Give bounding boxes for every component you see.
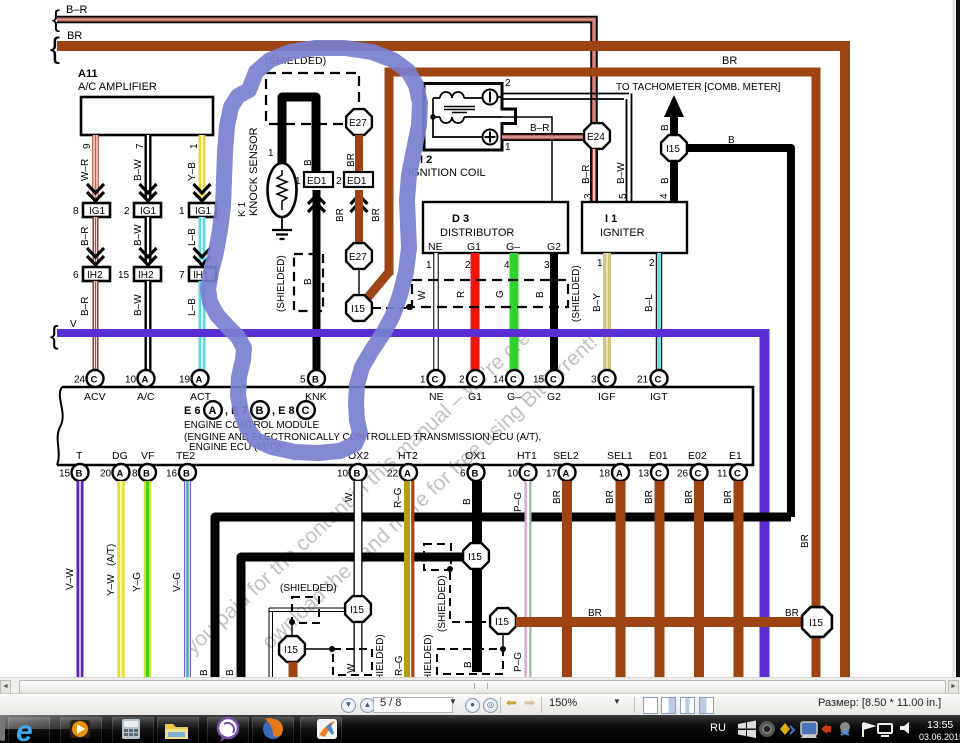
svg-text:5: 5 bbox=[300, 375, 306, 386]
svg-text:1: 1 bbox=[189, 143, 200, 149]
svg-text:1: 1 bbox=[179, 206, 185, 217]
svg-text:ED1: ED1 bbox=[347, 176, 367, 187]
svg-text:1: 1 bbox=[420, 375, 426, 386]
scrollbar bbox=[0, 677, 960, 694]
watermark line 2 bbox=[258, 330, 602, 653]
wire BR E27 to ED1 bbox=[355, 135, 363, 172]
wire B distributor G2 bbox=[535, 253, 554, 370]
svg-text:BR: BR bbox=[371, 208, 382, 222]
svg-text:E 6: E 6 bbox=[184, 405, 201, 417]
svg-text:B: B bbox=[354, 469, 361, 480]
node ACV pin 24 bbox=[74, 370, 106, 403]
node KNK pin 5 bbox=[300, 370, 327, 403]
svg-text:IG1: IG1 bbox=[140, 206, 157, 217]
wire B-W IG1 to IH2 bbox=[133, 217, 157, 265]
svg-text:BR: BR bbox=[785, 608, 799, 619]
svg-text:B: B bbox=[660, 124, 671, 131]
svg-text:KNOCK SENSOR: KNOCK SENSOR bbox=[248, 127, 260, 216]
svg-text:I15: I15 bbox=[809, 618, 823, 629]
ECM box bbox=[57, 387, 753, 465]
svg-text:ED1: ED1 bbox=[307, 176, 327, 187]
connector I15 tach bbox=[661, 135, 687, 161]
wire R distributor G1 bbox=[456, 253, 475, 370]
distributor D3 bbox=[423, 202, 568, 253]
svg-text:E24: E24 bbox=[587, 132, 605, 143]
svg-text:E27: E27 bbox=[349, 252, 367, 263]
svg-text:16: 16 bbox=[166, 469, 178, 480]
wire Y-B from A11 pin 1 bbox=[187, 135, 211, 201]
svg-text:2: 2 bbox=[124, 206, 130, 217]
svg-text:C: C bbox=[302, 405, 310, 417]
node G1 pin 2 bbox=[459, 370, 484, 403]
A/C amplifier A11 bbox=[78, 68, 213, 135]
shield dashed drop OX1 bbox=[437, 572, 487, 632]
svg-text:I 2: I 2 bbox=[420, 154, 432, 166]
svg-text:HT1: HT1 bbox=[517, 450, 537, 462]
svg-text:B: B bbox=[256, 405, 264, 417]
node OX2 pin 10 bbox=[337, 450, 369, 481]
node OX1 pin 6 bbox=[460, 450, 486, 481]
svg-text:BR: BR bbox=[67, 30, 82, 42]
svg-text:C: C bbox=[603, 375, 610, 386]
svg-text:DISTRIBUTOR: DISTRIBUTOR bbox=[440, 227, 514, 239]
svg-text:10: 10 bbox=[125, 375, 137, 386]
svg-text:DG: DG bbox=[112, 450, 128, 462]
node E1 pin 11 bbox=[717, 450, 747, 481]
svg-text:(SHIELDED): (SHIELDED) bbox=[375, 634, 386, 677]
svg-text:B–R: B–R bbox=[80, 227, 91, 246]
wire BR top horizontal bbox=[50, 30, 845, 677]
svg-text:5: 5 bbox=[618, 193, 629, 199]
igniter I1 bbox=[582, 202, 687, 253]
node SEL1 pin 18 bbox=[599, 450, 633, 481]
shield dashed box OX2 upper bbox=[289, 597, 319, 625]
node A/C pin 10 bbox=[125, 370, 155, 403]
wire W-R from A11 pin 9 bbox=[80, 135, 104, 201]
svg-text:R–G: R–G bbox=[393, 487, 404, 508]
shield dashed box OX1 upper bbox=[424, 544, 453, 572]
svg-text:20: 20 bbox=[100, 469, 112, 480]
svg-text:B–R: B–R bbox=[581, 165, 592, 184]
wire B-R IH2 to ECM 24 bbox=[80, 281, 96, 370]
svg-text:C: C bbox=[655, 375, 662, 386]
connector I15 on B wire OX1 bbox=[463, 543, 489, 569]
svg-text:W–R: W–R bbox=[80, 159, 91, 181]
svg-text:13: 13 bbox=[638, 469, 650, 480]
wire B-W from A11 pin 7 bbox=[133, 135, 157, 201]
svg-text:R: R bbox=[456, 291, 467, 298]
svg-text:TO TACHOMETER [COMB. METER]: TO TACHOMETER [COMB. METER] bbox=[616, 82, 781, 93]
wire B knock sensor loop bbox=[268, 97, 357, 172]
svg-text:BR: BR bbox=[800, 534, 811, 548]
svg-text:B: B bbox=[225, 669, 236, 676]
svg-text:B: B bbox=[76, 469, 83, 480]
svg-text:IGNITER: IGNITER bbox=[600, 227, 645, 239]
node IGF pin 3 bbox=[591, 370, 616, 403]
svg-text:7: 7 bbox=[179, 270, 185, 281]
svg-text:G: G bbox=[495, 290, 506, 298]
svg-text:22: 22 bbox=[387, 469, 399, 480]
svg-text:W: W bbox=[346, 663, 357, 673]
svg-text:B: B bbox=[472, 469, 479, 480]
svg-text:E02: E02 bbox=[688, 450, 707, 462]
wire B-R coil pin1 to E24 bbox=[502, 123, 584, 153]
svg-text:1: 1 bbox=[268, 148, 274, 159]
svg-text:A: A bbox=[563, 469, 570, 480]
svg-text:B–R: B–R bbox=[80, 297, 91, 316]
svg-text:L–B: L–B bbox=[187, 298, 198, 316]
node G2 pin 15 bbox=[533, 370, 563, 403]
svg-text:IH2: IH2 bbox=[138, 270, 154, 281]
svg-text:ACT: ACT bbox=[190, 391, 212, 403]
svg-text:10: 10 bbox=[337, 469, 349, 480]
label B-W igniter pin5 bbox=[616, 162, 629, 199]
svg-text:(SHIELDED): (SHIELDED) bbox=[571, 265, 582, 322]
wire L-B IH1 to ECM 19 bbox=[187, 281, 202, 370]
node HT1 pin 10 bbox=[507, 450, 537, 481]
svg-text:B–Y: B–Y bbox=[592, 293, 603, 312]
svg-text:e: e bbox=[16, 715, 33, 743]
connector ED1 pin 1 bbox=[295, 172, 333, 212]
svg-text:G1: G1 bbox=[468, 391, 482, 403]
wire G distributor G- bbox=[495, 253, 514, 370]
svg-text:E01: E01 bbox=[649, 450, 668, 462]
svg-text:B–L: B–L bbox=[644, 294, 655, 312]
svg-text:(SHIELDED): (SHIELDED) bbox=[280, 583, 337, 594]
svg-text:7: 7 bbox=[135, 143, 146, 149]
wire B-L igniter pin2 to IGT bbox=[644, 253, 659, 370]
connector E27 lower bbox=[346, 243, 372, 269]
svg-text:15: 15 bbox=[118, 270, 130, 281]
wire Y-G from VF bbox=[132, 481, 148, 677]
svg-text:V: V bbox=[70, 319, 77, 330]
wire B-R E24 to igniter pin3 bbox=[581, 149, 594, 202]
window right edge bbox=[952, 0, 960, 677]
connector IG1 pin 2 bbox=[124, 203, 161, 217]
svg-text:6: 6 bbox=[73, 270, 79, 281]
ECM text E6 E7 E8 bbox=[184, 401, 315, 419]
svg-text:A: A bbox=[142, 375, 149, 386]
svg-text:G2: G2 bbox=[547, 391, 561, 403]
shield box distributor (SHIELDED) bbox=[407, 265, 582, 322]
svg-text:BR: BR bbox=[723, 490, 734, 504]
wire BR from E01 bbox=[644, 481, 660, 677]
wire B-W IH2 to ECM 10 bbox=[133, 281, 148, 370]
wire shield drain E27 to I15 bbox=[358, 269, 360, 295]
svg-text:(SHIELDED): (SHIELDED) bbox=[423, 634, 434, 677]
svg-text:2: 2 bbox=[505, 78, 511, 89]
svg-text:18: 18 bbox=[599, 469, 611, 480]
connector I15 shield W bbox=[279, 624, 305, 677]
svg-text:IGT: IGT bbox=[650, 391, 668, 403]
svg-text:IGF: IGF bbox=[598, 391, 616, 403]
svg-text:C: C bbox=[524, 469, 531, 480]
svg-text:1: 1 bbox=[597, 258, 603, 269]
connector E24 bbox=[584, 123, 610, 149]
svg-text:BR: BR bbox=[335, 208, 346, 222]
svg-text:(SHIELDED): (SHIELDED) bbox=[437, 575, 448, 632]
node IGT pin 21 bbox=[637, 370, 668, 403]
svg-text:C: C bbox=[695, 469, 702, 480]
svg-text:I15: I15 bbox=[495, 617, 509, 628]
svg-text:I15: I15 bbox=[350, 605, 364, 616]
dashed link I15 to NE shield bbox=[373, 304, 412, 310]
svg-text:1: 1 bbox=[426, 260, 432, 271]
wire coil pin2 to igniter bbox=[502, 78, 632, 202]
svg-text:T: T bbox=[76, 450, 83, 462]
svg-text:KNK: KNK bbox=[305, 391, 327, 403]
svg-text:B: B bbox=[143, 469, 150, 480]
svg-text:1: 1 bbox=[505, 142, 511, 153]
connector IH2 pin 15 bbox=[118, 267, 161, 281]
svg-text:I15: I15 bbox=[666, 144, 680, 155]
svg-text:HT2: HT2 bbox=[398, 450, 418, 462]
node TE2 pin 16 bbox=[166, 450, 196, 481]
svg-text:26: 26 bbox=[677, 469, 689, 480]
connector ED1 pin 2 bbox=[336, 172, 373, 212]
svg-text:{: { bbox=[50, 32, 60, 65]
svg-text:B: B bbox=[303, 278, 314, 285]
wire B-R top horizontal bbox=[52, 4, 594, 124]
svg-text:3: 3 bbox=[591, 375, 597, 386]
svg-text:4: 4 bbox=[659, 193, 670, 199]
link I15 down to B shield box bbox=[500, 634, 506, 652]
svg-text:L–B: L–B bbox=[187, 228, 198, 246]
svg-text:B: B bbox=[462, 498, 473, 505]
svg-text:(A/T): (A/T) bbox=[106, 544, 117, 566]
node DG pin 20 bbox=[100, 450, 130, 481]
wire L-B IG1 to IH1 bbox=[187, 217, 211, 265]
node VF pin 8 bbox=[132, 450, 156, 481]
svg-text:21: 21 bbox=[637, 375, 649, 386]
svg-text:IGNITION COIL: IGNITION COIL bbox=[408, 167, 486, 179]
ground knock sensor bbox=[272, 217, 292, 239]
svg-text:C: C bbox=[91, 375, 98, 386]
svg-text:B: B bbox=[312, 375, 319, 386]
svg-text:3: 3 bbox=[544, 260, 550, 271]
svg-text:Y–G: Y–G bbox=[132, 572, 143, 592]
svg-text:VF: VF bbox=[141, 450, 154, 462]
svg-text:B–R: B–R bbox=[530, 123, 549, 134]
svg-text:G–: G– bbox=[506, 241, 520, 253]
ignition coil I2 bbox=[408, 84, 516, 180]
shield dashed box OX2 lower with W label bbox=[333, 634, 386, 691]
svg-text:E1: E1 bbox=[729, 450, 742, 462]
svg-text:I15: I15 bbox=[284, 645, 298, 656]
svg-text:B–R: B–R bbox=[66, 4, 87, 16]
connector IH2 pin 6 bbox=[73, 267, 110, 281]
node ACT pin 19 bbox=[179, 370, 212, 403]
wire B tachometer arrow bbox=[660, 95, 684, 136]
svg-text:C: C bbox=[655, 469, 662, 480]
svg-text:6: 6 bbox=[460, 469, 466, 480]
connector I15 on W wire bbox=[345, 596, 371, 622]
svg-text:11: 11 bbox=[717, 469, 728, 480]
svg-text:IH2: IH2 bbox=[87, 270, 103, 281]
svg-text:P–G: P–G bbox=[513, 652, 524, 672]
svg-text:V–W: V–W bbox=[65, 568, 76, 590]
svg-text:BR: BR bbox=[684, 490, 695, 504]
svg-text:Y–W: Y–W bbox=[106, 574, 117, 596]
connector IH1 pin 7 bbox=[179, 267, 216, 281]
svg-text:A11: A11 bbox=[78, 68, 98, 80]
link I15 to W shield box bbox=[305, 646, 335, 652]
svg-text:R–G: R–G bbox=[394, 655, 405, 676]
svg-text:A: A bbox=[117, 469, 124, 480]
node E02 pin 26 bbox=[677, 450, 708, 481]
svg-text:C: C bbox=[432, 375, 439, 386]
svg-text:V–G: V–G bbox=[172, 572, 183, 592]
wire B elbow inner bbox=[225, 557, 465, 677]
knock sensor K1 bbox=[237, 127, 297, 217]
svg-text:TE2: TE2 bbox=[176, 450, 195, 462]
svg-text:3: 3 bbox=[583, 193, 594, 199]
label TO TACHOMETER bbox=[616, 82, 781, 93]
wire coil to distributor bbox=[502, 117, 552, 202]
connector I15 knock shield bbox=[346, 295, 372, 321]
svg-text:14: 14 bbox=[493, 375, 505, 386]
wire P-G from HT1 bbox=[513, 481, 530, 677]
wire BR from SEL2 bbox=[552, 481, 567, 677]
shield dashed box OX1 lower with B label bbox=[423, 634, 503, 691]
wire R-G from HT2 bbox=[393, 481, 413, 677]
svg-text:A/C AMPLIFIER: A/C AMPLIFIER bbox=[78, 81, 157, 93]
svg-text:B: B bbox=[535, 291, 546, 298]
svg-text:15: 15 bbox=[59, 469, 71, 480]
svg-text:8: 8 bbox=[73, 206, 79, 217]
svg-text:C: C bbox=[550, 375, 557, 386]
svg-text:8: 8 bbox=[132, 469, 138, 480]
node T pin 15 bbox=[59, 450, 89, 481]
svg-text:B–W: B–W bbox=[133, 159, 144, 181]
svg-text:17: 17 bbox=[546, 469, 558, 480]
svg-text:1: 1 bbox=[295, 176, 301, 187]
svg-text:B: B bbox=[660, 177, 671, 184]
svg-text:{: { bbox=[52, 6, 60, 33]
svg-text:A: A bbox=[209, 405, 217, 417]
svg-text:SEL2: SEL2 bbox=[553, 450, 579, 462]
wire BR from SEL1 bbox=[605, 481, 621, 677]
svg-text:B: B bbox=[183, 469, 190, 480]
wire W distributor NE bbox=[417, 253, 436, 370]
svg-text:NE: NE bbox=[428, 241, 443, 253]
svg-text:19: 19 bbox=[179, 375, 191, 386]
svg-text:OX1: OX1 bbox=[465, 450, 486, 462]
svg-text:SEL1: SEL1 bbox=[607, 450, 633, 462]
wire BR from E1 bbox=[723, 481, 739, 677]
svg-text:I15: I15 bbox=[468, 552, 482, 563]
watermark line 1 bbox=[181, 326, 535, 658]
wire V-G from TE2 bbox=[172, 481, 188, 677]
svg-text:9: 9 bbox=[82, 143, 93, 149]
connector I15 shield OX1 bbox=[490, 608, 516, 634]
svg-text:B–W: B–W bbox=[616, 162, 627, 184]
node G- pin 14 bbox=[493, 370, 523, 403]
svg-text:15: 15 bbox=[533, 375, 545, 386]
svg-text:2: 2 bbox=[465, 260, 471, 271]
svg-text:C: C bbox=[510, 375, 517, 386]
node SEL2 pin 17 bbox=[546, 450, 579, 481]
svg-text:A: A bbox=[404, 469, 411, 480]
connector E27 upper bbox=[346, 109, 372, 135]
wire B ED1 to ECM KNK bbox=[303, 190, 317, 370]
svg-text:B: B bbox=[728, 135, 735, 146]
svg-text:{: { bbox=[50, 320, 59, 350]
connector I15 BR right bbox=[802, 607, 832, 637]
svg-text:NE: NE bbox=[429, 391, 444, 403]
svg-text:C: C bbox=[471, 375, 478, 386]
svg-text:24: 24 bbox=[74, 375, 86, 386]
svg-text:E27: E27 bbox=[349, 118, 367, 129]
toolbar bbox=[0, 693, 960, 717]
svg-text:P–G: P–G bbox=[513, 492, 524, 512]
shield box knock sensor lower (SHIELDED) bbox=[276, 254, 323, 312]
wire V main horizontal bbox=[50, 319, 766, 350]
node HT2 pin 22 bbox=[387, 450, 418, 481]
taskbar bbox=[0, 715, 960, 743]
blue highlight loop bbox=[208, 48, 420, 453]
svg-text:I15: I15 bbox=[351, 304, 365, 315]
svg-text:C: C bbox=[734, 469, 741, 480]
node NE pin 1 bbox=[420, 370, 445, 403]
shield thin line OX2 bbox=[269, 608, 345, 677]
svg-text:4: 4 bbox=[504, 260, 510, 271]
svg-text:(SHIELDED): (SHIELDED) bbox=[276, 255, 287, 312]
svg-text:B: B bbox=[303, 159, 314, 166]
svg-text:I 1: I 1 bbox=[605, 213, 617, 225]
svg-text:B–W: B–W bbox=[133, 224, 144, 246]
svg-text:BR: BR bbox=[605, 490, 616, 504]
wire V-W from T bbox=[65, 481, 80, 677]
svg-text:2: 2 bbox=[649, 258, 655, 269]
svg-text:, E 8: , E 8 bbox=[272, 405, 295, 417]
wire BR from E02 bbox=[684, 481, 699, 677]
svg-text:ACV: ACV bbox=[84, 391, 106, 403]
svg-text:B–W: B–W bbox=[133, 294, 144, 316]
svg-text:BR: BR bbox=[644, 490, 655, 504]
wire BR bus horizontal bottom bbox=[516, 534, 811, 622]
wire W from OX2 bbox=[344, 481, 358, 672]
svg-text:B: B bbox=[199, 669, 210, 676]
wire B I15 right and down bbox=[687, 135, 791, 517]
svg-text:2: 2 bbox=[459, 375, 465, 386]
svg-text:A/C: A/C bbox=[137, 391, 155, 403]
svg-text:IG1: IG1 bbox=[89, 206, 106, 217]
svg-text:G2: G2 bbox=[547, 241, 561, 253]
connector IG1 pin 1 bbox=[179, 203, 216, 217]
svg-text:2: 2 bbox=[336, 176, 342, 187]
wire B-R IG1 to IH2 bbox=[80, 217, 104, 265]
shield label OX2 (SHIELDED) bbox=[280, 583, 337, 594]
svg-text:A: A bbox=[196, 375, 203, 386]
shield box knock sensor top (SHIELDED) bbox=[265, 55, 359, 124]
ECM text name bbox=[184, 420, 541, 453]
svg-text:G1: G1 bbox=[467, 241, 481, 253]
wire B I15 to igniter pin4 bbox=[659, 161, 674, 202]
svg-text:D 3: D 3 bbox=[452, 213, 469, 225]
svg-text:B: B bbox=[463, 661, 474, 668]
svg-text:Y–B: Y–B bbox=[187, 162, 198, 181]
wire Y-W from DG bbox=[106, 481, 121, 677]
connector IG1 pin 8 bbox=[73, 203, 110, 217]
wire B elbow outer bbox=[199, 517, 791, 677]
svg-text:IG1: IG1 bbox=[195, 206, 212, 217]
svg-text:BR: BR bbox=[722, 55, 737, 67]
svg-text:G–: G– bbox=[507, 391, 521, 403]
svg-text:BR: BR bbox=[552, 490, 563, 504]
svg-text:W: W bbox=[417, 290, 428, 300]
svg-text:A: A bbox=[616, 469, 623, 480]
